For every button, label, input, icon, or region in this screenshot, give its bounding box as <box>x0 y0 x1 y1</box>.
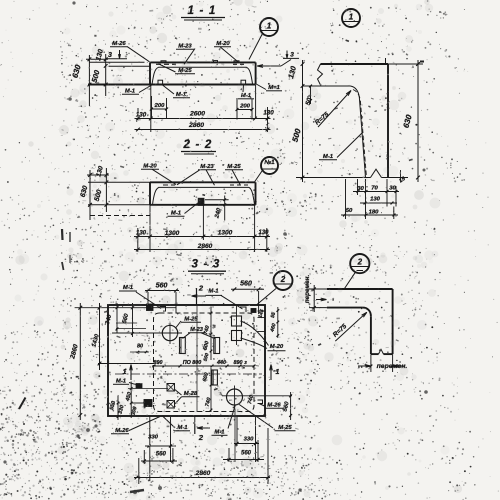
svg-text:560: 560 <box>241 451 252 457</box>
svg-text:М-23: М-23 <box>190 327 204 333</box>
svg-text:2860: 2860 <box>197 243 213 250</box>
svg-text:30: 30 <box>357 186 364 192</box>
svg-text:2: 2 <box>198 433 204 442</box>
svg-text:М-26: М-26 <box>267 403 281 409</box>
svg-text:1: 1 <box>267 22 272 31</box>
svg-text:М-23: М-23 <box>200 164 214 170</box>
svg-text:М-20: М-20 <box>143 164 157 170</box>
svg-text:М-26: М-26 <box>115 428 129 434</box>
svg-text:180: 180 <box>369 210 380 216</box>
svg-text:2: 2 <box>198 284 204 293</box>
svg-text:2860: 2860 <box>188 122 204 129</box>
svg-text:1 - 1: 1 - 1 <box>187 5 216 17</box>
svg-text:М-1: М-1 <box>177 425 187 431</box>
svg-text:М-20: М-20 <box>216 41 230 47</box>
svg-text:560: 560 <box>156 283 168 290</box>
svg-text:50: 50 <box>346 208 353 214</box>
svg-text:М-20: М-20 <box>270 344 284 350</box>
svg-text:М=1: М=1 <box>268 85 280 91</box>
svg-text:130: 130 <box>263 110 274 117</box>
svg-text:М-28: М-28 <box>184 391 198 397</box>
svg-text:М-1: М-1 <box>123 285 133 291</box>
svg-text:М-26: М-26 <box>112 41 126 47</box>
svg-text:70: 70 <box>371 186 378 192</box>
svg-text:М-25: М-25 <box>227 164 241 170</box>
svg-text:М-1: М-1 <box>176 92 186 98</box>
svg-text:3: 3 <box>108 52 112 59</box>
svg-text:1: 1 <box>276 369 280 376</box>
svg-text:3: 3 <box>290 52 294 59</box>
svg-text:№1: №1 <box>263 159 275 166</box>
svg-text:200: 200 <box>154 103 166 109</box>
svg-text:М-25: М-25 <box>278 425 292 431</box>
svg-text:1: 1 <box>349 13 354 22</box>
svg-text:890: 890 <box>234 360 243 366</box>
svg-text:200: 200 <box>239 104 251 110</box>
svg-text:М-1: М-1 <box>125 89 135 95</box>
svg-text:М-23: М-23 <box>178 44 192 50</box>
svg-text:М-1: М-1 <box>323 154 333 160</box>
